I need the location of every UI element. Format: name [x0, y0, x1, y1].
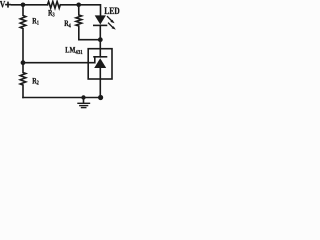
ground [83, 98, 85, 103]
LM431 reference lead jog inside box [88, 57, 95, 63]
svg-text:LED: LED [104, 5, 120, 16]
LED light arrow 1 [108, 17, 112, 21]
junction dot at ground tap [81, 95, 85, 99]
junction dot at divider node [21, 60, 26, 65]
resistor R1 [20, 5, 26, 63]
wire reference from divider to LM431 [23, 62, 88, 64]
wire LED cathode down to node [99, 25, 101, 39]
wire bottom rail [23, 97, 100, 99]
junction dot at R1 top [21, 3, 26, 8]
resistor R3 [48, 1, 61, 8]
junction dot at anode/bottom rail [98, 95, 103, 100]
junction dot at LED/R4 node [98, 37, 103, 42]
wire from R4 bottom to LED cathode node [79, 39, 101, 41]
resistor R2 [20, 63, 26, 98]
LM431 anode triangle [94, 58, 106, 68]
junction dot at R4 top [76, 3, 81, 8]
op-amp U1: LM431 box [88, 49, 112, 79]
wire from node into LM431 cathode [99, 40, 101, 57]
LM431 anode lead down through box to bottom rail [99, 68, 101, 98]
LED light arrow 2 [109, 23, 113, 27]
svg-text:V: V [0, 0, 5, 10]
LED cathode bar [94, 24, 107, 26]
LM431 cathode bar [94, 56, 107, 58]
wire top rail from V+ to R3 [12, 4, 48, 6]
LED diode triangle (anode top) [95, 15, 106, 24]
wire top rail from R3 to LED corner [60, 5, 100, 16]
resistor R4 [76, 5, 82, 40]
